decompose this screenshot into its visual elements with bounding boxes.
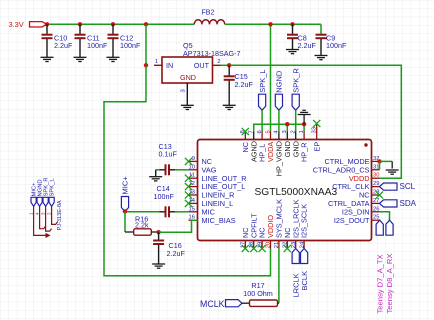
IC pin 25 I2S_DOUT stub xyxy=(372,219,380,221)
IC pin 18 CPFILT stub xyxy=(253,241,255,249)
junction at 3.3V tag xyxy=(45,22,49,26)
no-connect pin 28 xyxy=(376,191,383,198)
IC pin 24 I2S_SCLK stub xyxy=(303,241,305,249)
wire I2S_DIN over xyxy=(380,212,390,220)
svg-text:EP: EP xyxy=(312,142,321,152)
wire GND pin1 up xyxy=(303,124,305,131)
svg-text:SPK_R: SPK_R xyxy=(291,68,300,93)
svg-text:NGND: NGND xyxy=(275,70,284,93)
wire MIC_BIAS xyxy=(159,220,198,232)
capacitor C13 xyxy=(156,164,190,175)
svg-text:OUT: OUT xyxy=(194,61,210,70)
IC pin 16 MIC_BIAS stub xyxy=(189,219,198,221)
connector P1 pin 3 wire xyxy=(46,206,52,231)
junction Q5 feed xyxy=(144,22,148,26)
svg-text:20: 20 xyxy=(266,242,272,248)
global label SDA shape xyxy=(380,200,398,207)
connector P1 arrow xyxy=(46,233,51,238)
IC pin 31 CTRL_ADR0_CS stub xyxy=(372,169,380,171)
IC pin 29 CTRL_CLK stub xyxy=(372,186,380,188)
IC pin 33 EP stub xyxy=(316,124,318,140)
svg-text:1: 1 xyxy=(299,130,305,133)
global label SCL shape xyxy=(380,183,398,190)
svg-text:100 Ohm: 100 Ohm xyxy=(243,289,273,298)
svg-text:2: 2 xyxy=(217,59,220,65)
IC pin 9 NC stub xyxy=(189,160,198,162)
Q5 pin 3 GND lead xyxy=(186,83,188,105)
junction R16 C16 xyxy=(156,230,160,234)
net label Teensy D8 shape xyxy=(386,220,393,235)
svg-text:MCLK: MCLK xyxy=(200,299,225,309)
Q5 pin 1 stub xyxy=(154,64,162,66)
wire down to Q5 IN xyxy=(145,24,147,65)
C13 ground lead xyxy=(155,170,157,177)
svg-text:Teensy D8_A_RX: Teensy D8_A_RX xyxy=(385,254,394,314)
ground xyxy=(286,50,299,54)
IC pin 8 NC stub xyxy=(244,132,246,140)
svg-text:IN: IN xyxy=(166,61,173,70)
wire GND pin3 up xyxy=(286,124,288,131)
ground C13 xyxy=(149,177,162,181)
net label jack SPK_R shape xyxy=(43,197,48,206)
wire 3.3V rail left xyxy=(47,23,195,25)
capacitor C11 xyxy=(75,24,86,57)
net label SPK_R shape xyxy=(292,94,299,110)
no-connect EP xyxy=(313,120,320,127)
IC pin 7 AGND stub xyxy=(253,132,255,140)
Q5 pin 2 stub xyxy=(213,64,221,66)
no-connect pin 8 xyxy=(242,128,249,135)
wire SPK_R to HP_R xyxy=(295,110,297,131)
power symbol 3.3V xyxy=(30,22,47,27)
svg-text:FB2: FB2 xyxy=(202,10,215,17)
junction GND pin1 xyxy=(302,122,306,126)
svg-text:29: 29 xyxy=(373,181,379,187)
ground Q5 xyxy=(181,105,194,109)
svg-text:Teensy D7_A_TX: Teensy D7_A_TX xyxy=(375,254,384,313)
svg-text:HP_R: HP_R xyxy=(300,143,309,162)
no-connect pin 18 xyxy=(250,245,257,252)
no-connect pin 12 xyxy=(185,183,192,190)
wire C9 drop xyxy=(320,24,322,34)
IC U1 SGTL5000 body xyxy=(198,140,372,241)
IC pin 28 NC stub xyxy=(372,194,380,196)
ground xyxy=(41,57,54,61)
junction C12 xyxy=(111,22,115,26)
R16 right lead xyxy=(151,231,158,233)
R17 right lead xyxy=(278,302,279,304)
IC pin 22 NC stub xyxy=(286,241,288,249)
svg-text:2.2uF: 2.2uF xyxy=(298,41,317,50)
ground right xyxy=(386,170,399,174)
wire 1.8V rail to VDDD xyxy=(229,65,401,178)
svg-text:PJ-313E-8A: PJ-313E-8A xyxy=(57,200,63,230)
svg-text:100nF: 100nF xyxy=(87,41,108,50)
wire rail after FB2 xyxy=(225,23,321,25)
wire 3.3V to VDDIO xyxy=(104,65,271,275)
svg-text:31: 31 xyxy=(373,164,379,170)
svg-text:MIC+: MIC+ xyxy=(121,176,130,195)
no-connect pin 13 xyxy=(185,191,192,198)
global label MCLK shape xyxy=(226,300,243,307)
svg-text:I2S_DOUT: I2S_DOUT xyxy=(334,216,370,225)
net label LRCLK shape xyxy=(292,249,299,264)
svg-text:3.3V: 3.3V xyxy=(9,20,24,29)
net label BCLK shape xyxy=(301,249,308,264)
IC pin 13 LINEIN_R stub xyxy=(189,194,198,196)
ground xyxy=(107,57,120,61)
no-connect pin 22 xyxy=(284,245,291,252)
IC pin 20 VDDIO stub xyxy=(270,241,272,249)
svg-text:2: 2 xyxy=(291,130,297,133)
svg-text:24: 24 xyxy=(299,241,305,248)
IC pin 3 GND stub xyxy=(286,132,288,140)
IC pin 26 I2S_DIN stub xyxy=(372,211,380,213)
net label jack MIC+ shape xyxy=(31,197,36,206)
ground xyxy=(152,264,165,268)
IC pin 11 LINE_OUT_R stub xyxy=(189,177,198,179)
resistor R16 body xyxy=(134,229,152,235)
wire Q5 OUT xyxy=(221,64,230,66)
svg-text:7: 7 xyxy=(249,130,255,133)
net label jack NGND shape xyxy=(37,197,42,206)
capacitor C10 xyxy=(42,24,53,57)
resistor R17 body xyxy=(250,300,278,306)
ground lead right xyxy=(391,161,393,168)
junction CTRL_MODE xyxy=(377,159,381,163)
svg-text:2.2uF: 2.2uF xyxy=(167,249,186,258)
IC pin 17 NC stub xyxy=(244,241,246,249)
IC pin 2 GND stub xyxy=(295,132,297,140)
svg-text:2.2uF: 2.2uF xyxy=(235,80,254,89)
svg-text:33: 33 xyxy=(312,127,318,133)
IC pin 14 LINEIN_L stub xyxy=(189,202,198,204)
wire VDDA drop xyxy=(270,24,272,131)
no-connect pin 19 xyxy=(259,245,266,252)
ground xyxy=(315,56,328,60)
svg-text:3: 3 xyxy=(282,130,288,133)
net label Teensy D7 shape xyxy=(376,220,383,235)
net label jack SPK_L shape xyxy=(49,197,54,206)
svg-text:100nF: 100nF xyxy=(120,41,141,50)
IC pin 27 CTRL_DATA stub xyxy=(372,202,380,204)
svg-text:26: 26 xyxy=(373,206,379,212)
IC pin 21 SYS_MCLK stub xyxy=(278,241,280,249)
connector P1 pin 2 wire xyxy=(52,206,58,224)
regulator Q5 body xyxy=(162,57,213,83)
ground xyxy=(223,105,236,109)
svg-text:3: 3 xyxy=(181,89,187,92)
svg-text:GND: GND xyxy=(180,73,196,82)
ferrite bead FB2 xyxy=(194,20,224,25)
svg-text:100nF: 100nF xyxy=(326,41,347,50)
junction C8 xyxy=(290,22,294,26)
net label NGND shape xyxy=(275,94,282,110)
IC pin 5 VDDA stub xyxy=(270,132,272,140)
svg-text:BCLK: BCLK xyxy=(300,271,309,291)
capacitor C9 xyxy=(316,34,327,56)
no-connect pin 11 xyxy=(185,175,192,182)
IC pin 12 LINE_OUT_L stub xyxy=(189,186,198,188)
IC pin 1 HP_R stub xyxy=(303,132,305,140)
IC pin 6 HP_L stub xyxy=(261,132,263,140)
wire VDDIO stub join xyxy=(270,249,272,255)
wire MIC+ down xyxy=(124,212,126,233)
connector P1 pin 1 wire xyxy=(34,206,46,235)
svg-text:MIC_BIAS: MIC_BIAS xyxy=(202,216,236,225)
svg-text:1: 1 xyxy=(155,59,158,65)
svg-text:SCL: SCL xyxy=(400,182,416,191)
svg-text:11: 11 xyxy=(189,173,195,179)
junction MIC+ xyxy=(123,209,127,213)
net label SPK_L shape xyxy=(259,94,266,110)
capacitor C8 xyxy=(287,24,298,49)
svg-text:30: 30 xyxy=(373,173,379,179)
ground lead top xyxy=(303,115,305,125)
svg-text:25: 25 xyxy=(373,215,379,221)
junction C15 xyxy=(227,63,231,67)
capacitor C15 xyxy=(224,65,235,105)
IC pin 23 I2S_LRCLK stub xyxy=(295,241,297,249)
capacitor C16 xyxy=(153,232,164,264)
wire NGND to HP_VGND xyxy=(278,110,280,131)
svg-text:SGTL5000XNAA3: SGTL5000XNAA3 xyxy=(255,187,338,198)
R17 left lead xyxy=(242,302,250,304)
capacitor C12 xyxy=(108,24,119,57)
wire SYS_MCLK down xyxy=(278,249,280,304)
svg-text:0.1uF: 0.1uF xyxy=(159,150,178,159)
svg-text:9: 9 xyxy=(192,156,195,162)
svg-text:2.2uF: 2.2uF xyxy=(54,41,73,50)
R16 left lead xyxy=(125,231,134,233)
IC pin 30 VDDD stub xyxy=(372,177,380,179)
connector P1 pin 4 wire xyxy=(40,206,46,228)
svg-text:AP7313-18SAG-7: AP7313-18SAG-7 xyxy=(183,49,241,58)
IC pin 19 NC stub xyxy=(261,241,263,249)
svg-text:21: 21 xyxy=(274,242,280,248)
IC pin 4 HP_VGND stub xyxy=(278,132,280,140)
junction Q5 IN xyxy=(144,63,148,67)
no-connect pin 14 xyxy=(185,200,192,207)
wire ADR0 to MODE xyxy=(379,161,381,169)
junction VDDA rail xyxy=(268,22,272,26)
wire AGND bus xyxy=(254,124,304,131)
IC pin 32 CTRL_MODE stub xyxy=(372,160,380,162)
capacitor C14 xyxy=(125,206,190,217)
svg-text:SPK_L: SPK_L xyxy=(258,69,267,92)
svg-text:100nF: 100nF xyxy=(154,192,175,201)
junction GND pin3 xyxy=(285,122,289,126)
IC pin 15 MIC stub xyxy=(189,211,198,213)
IC pin1 marker dot xyxy=(364,143,367,146)
wire MODE to ground xyxy=(380,160,393,162)
svg-text:2.2k: 2.2k xyxy=(135,221,149,230)
ground top inverted xyxy=(298,110,311,114)
IC pin 10 VAG stub xyxy=(189,169,198,171)
svg-text:5: 5 xyxy=(265,130,271,133)
svg-text:23: 23 xyxy=(291,242,297,248)
no-connect pin 17 xyxy=(242,245,249,252)
wire SPK_L to HP_L xyxy=(261,110,263,131)
svg-text:SDA: SDA xyxy=(400,199,417,208)
no-connect pin 9 xyxy=(185,158,192,165)
junction C11 xyxy=(78,22,82,26)
svg-text:I2S_SCLK: I2S_SCLK xyxy=(300,204,309,238)
svg-text:6: 6 xyxy=(257,130,263,133)
svg-text:SPK_L: SPK_L xyxy=(50,178,56,197)
ground xyxy=(74,57,87,61)
net label MIC+ shape xyxy=(121,197,128,212)
